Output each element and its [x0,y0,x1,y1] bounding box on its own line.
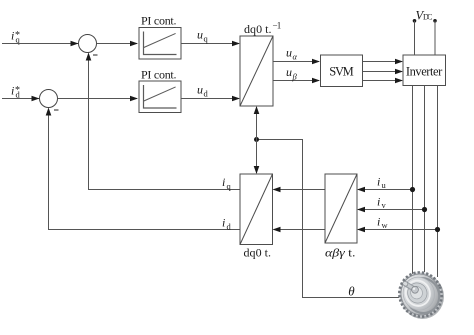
motor shaft [402,280,418,293]
wire theta to transforms [254,106,260,174]
block PI controller 1 [139,14,181,60]
wire ud [181,83,240,102]
svg-text:θ: θ [348,284,355,299]
svg-text:u: u [197,83,203,97]
svg-text:β: β [292,72,298,82]
svg-text:PI cont.: PI cont. [141,14,177,28]
node id* label [11,84,21,100]
wire S1 to PI1 [97,41,139,47]
wire u_alpha [273,46,320,65]
wire SVM to inverter 3 [363,78,404,84]
block Inverter [403,55,446,86]
block dq0 transform [240,174,273,260]
svg-text:i: i [222,216,225,230]
node iq* label [11,29,21,45]
node VDC dot left [413,19,417,23]
wire uq [181,28,240,47]
svg-text:dq0 t.: dq0 t. [244,22,272,36]
wire phase w [437,86,439,278]
motor M [393,266,449,323]
svg-text:DC: DC [423,13,433,22]
svg-text:i: i [11,29,14,43]
svg-text:*: * [15,30,20,41]
wire id* input [2,96,40,102]
wire iq feedback [86,53,240,192]
svg-text:i: i [377,215,380,229]
block PI controller 2 [139,68,181,113]
svg-text:i: i [222,175,225,189]
block alphabetagamma transform [325,174,357,260]
svg-text:−1: −1 [273,21,282,31]
wire id feedback [46,108,240,232]
wire iq* input [2,41,79,47]
wire iu [357,175,415,193]
summing junction S2 [40,90,59,111]
wire phase u [412,86,414,275]
motor gear rim [393,266,449,323]
block SVM [321,55,363,87]
svg-text:dq0 t.: dq0 t. [244,246,272,260]
svg-text:PI cont.: PI cont. [141,68,177,82]
svg-text:i: i [377,175,380,189]
wire alphabeta to dq0 line 1 [273,187,326,193]
svg-text:*: * [15,85,20,96]
wire alphabeta to dq0 line 2 [273,227,326,233]
svg-text:q: q [204,34,209,44]
wire S2 to PI2 [58,96,139,102]
node theta junction [254,137,259,142]
svg-text:d: d [204,89,209,99]
node VDC label [416,9,433,23]
wire SVM to inverter 1 [363,59,404,65]
svg-text:u: u [382,180,387,190]
summing junction S1 [79,35,98,56]
svg-text:v: v [382,200,387,210]
node VDC dot right [433,19,437,23]
wire iw [357,215,440,233]
wire SVM to inverter 2 [363,69,404,75]
block dq0 inverse transform [240,21,281,107]
svg-text:i: i [11,84,14,98]
svg-text:i: i [377,195,380,209]
svg-text:w: w [382,220,389,230]
wire phase v [424,86,426,273]
wire u_beta [273,65,320,83]
svg-text:αβγ t.: αβγ t. [325,246,356,260]
wire VDC right [434,21,436,55]
svg-text:α: α [293,52,298,62]
svg-text:Inverter: Inverter [406,65,443,79]
svg-text:SVM: SVM [329,65,354,79]
wire VDC left [414,21,416,55]
svg-text:u: u [286,46,292,60]
svg-text:u: u [197,28,203,42]
wire iv [357,195,427,213]
motor shadow [401,274,444,319]
wire theta [258,140,400,299]
svg-text:u: u [286,65,292,79]
